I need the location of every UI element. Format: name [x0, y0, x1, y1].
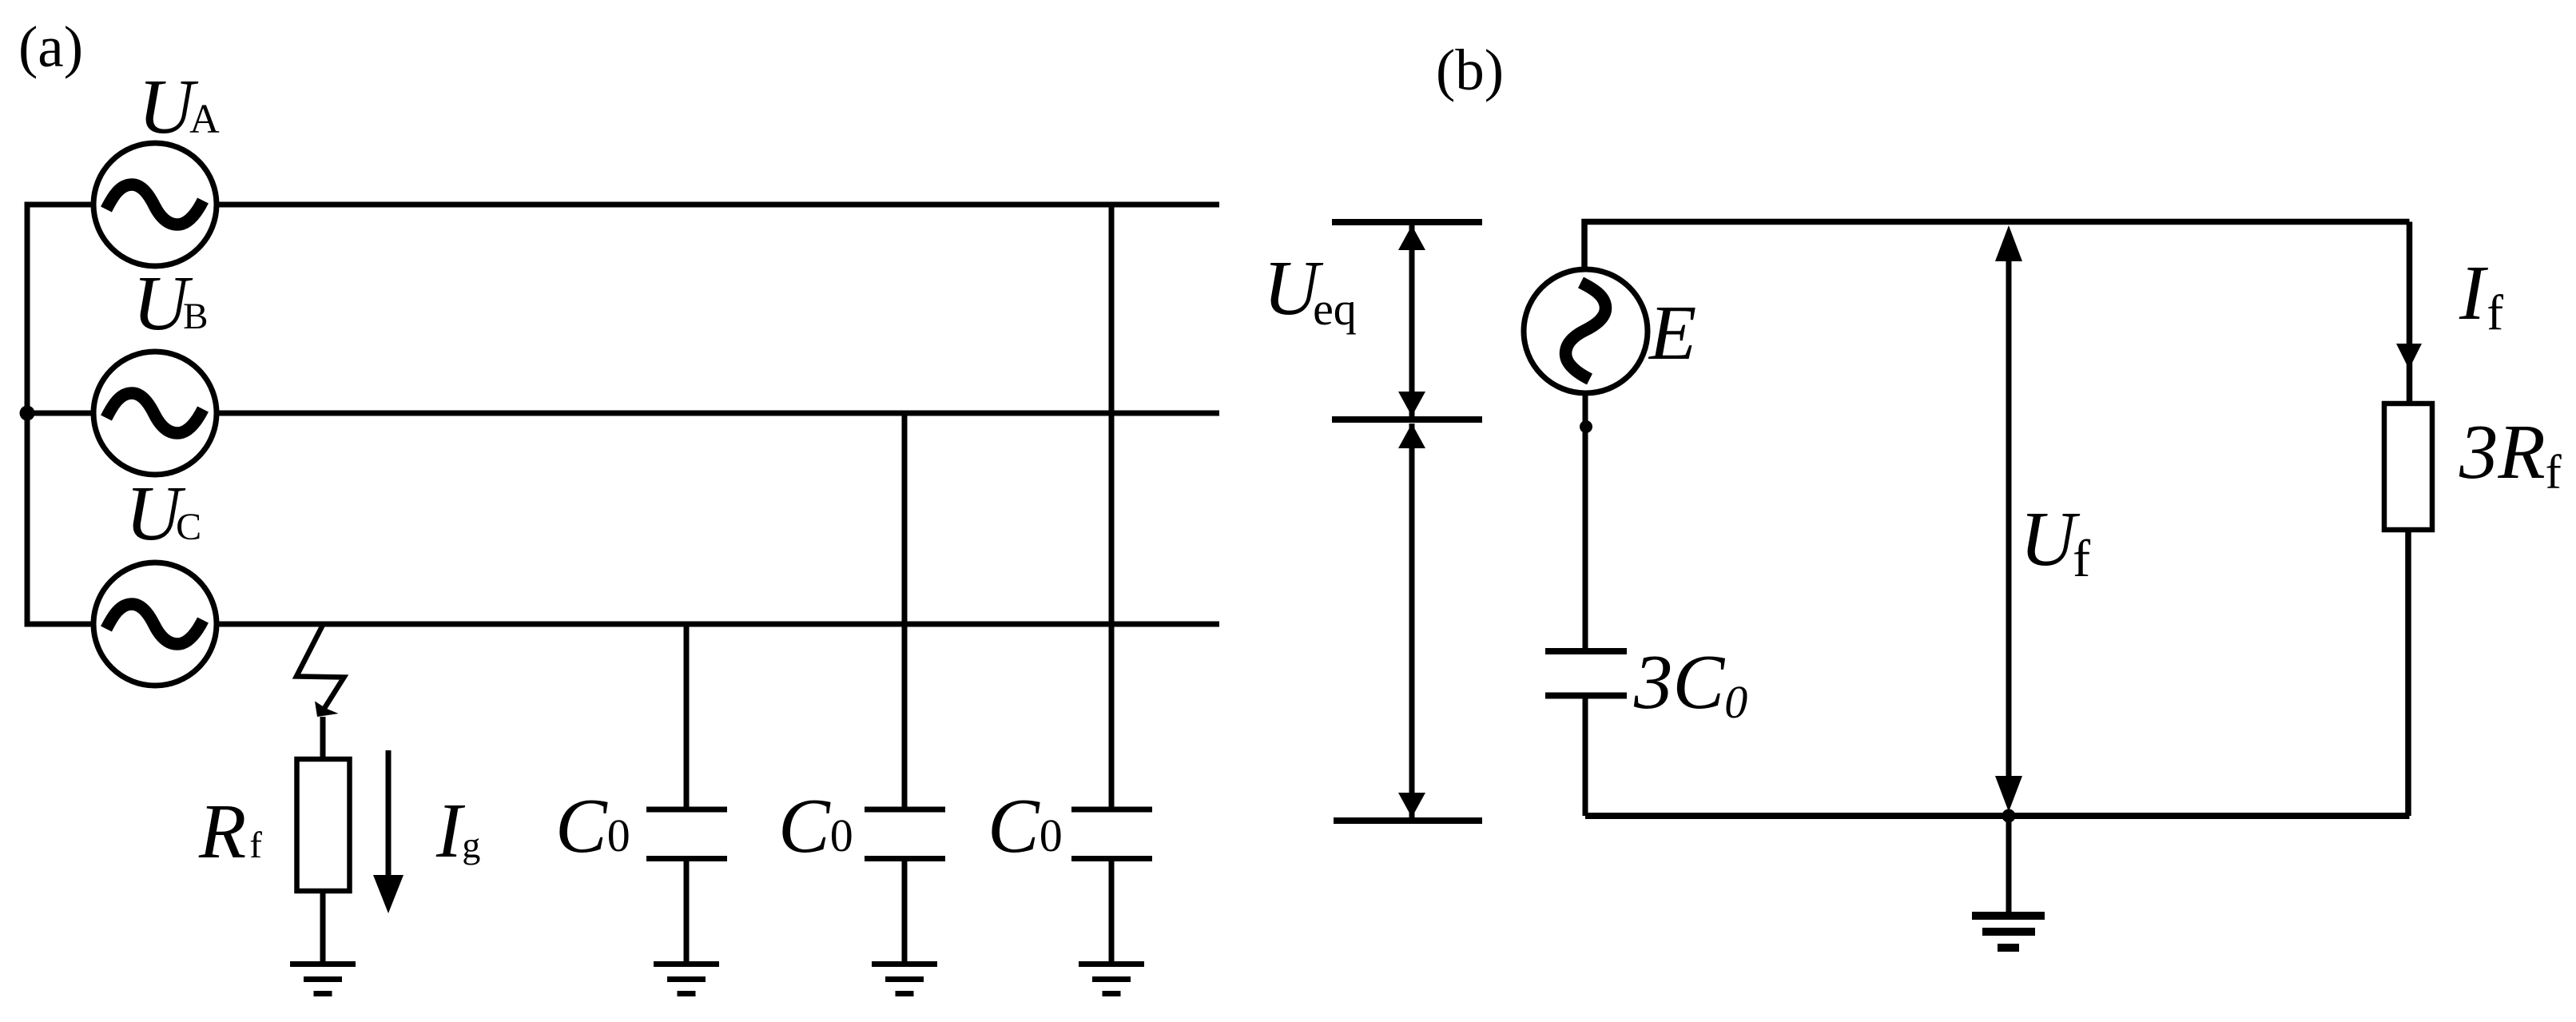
capacitor C0 #3: [1071, 205, 1152, 964]
ground below C0 #1: [654, 961, 719, 996]
dimension lower double arrow: [1398, 424, 1425, 817]
capacitor C0 #2: [865, 413, 945, 964]
capacitor 3C0 plates: [1545, 651, 1627, 696]
node dot at bottom wire / ground: [2002, 809, 2016, 823]
dimension Ueq top bar: [1332, 219, 1482, 225]
node dot below E: [1580, 420, 1592, 433]
resistor Rf: [297, 759, 350, 891]
svg-text:E: E: [1648, 290, 1696, 376]
capacitor C0 #1: [646, 624, 727, 964]
wire: fault to Rf: [320, 717, 326, 759]
current arrow Ig: [373, 750, 403, 913]
wire: bottom wire to ground: [2006, 816, 2012, 912]
ground below C0 #3: [1079, 961, 1144, 996]
wire: left neutral bus vertical: [25, 202, 30, 627]
wire: Rf to ground: [320, 891, 326, 964]
source E: [1524, 269, 1648, 393]
resistor 3Rf: [2384, 404, 2432, 530]
fault lightning zigzag: [296, 626, 344, 710]
wire: phase B horizontal: [25, 411, 1220, 416]
wire: 3Rf to bottom wire: [2405, 530, 2411, 816]
source UB: [93, 352, 217, 475]
dimension Ueq bottom bar: [1332, 416, 1482, 423]
ground below (b): [1972, 912, 2045, 952]
ground below C0 #2: [872, 961, 937, 996]
wire: 3C0 to bottom wire: [1583, 696, 1588, 817]
svg-text:(b): (b): [1436, 38, 1504, 102]
source UC: [93, 563, 217, 686]
fault lightning arrowhead: [315, 702, 339, 718]
ground below Rf: [290, 961, 356, 996]
svg-text:(a): (a): [18, 14, 83, 79]
dimension Ueq double arrow: [1398, 225, 1425, 416]
wire: E top to corner and top wire of (b): [1584, 222, 2410, 272]
wire: right branch from top wire to resistor: [2407, 222, 2413, 404]
current arrowhead If: [2396, 344, 2422, 369]
node: neutral junction dot: [20, 406, 35, 421]
wire: E bottom to capacitor 3C0: [1583, 391, 1588, 648]
source UA: [93, 143, 217, 266]
dimension bottom bar: [1334, 817, 1482, 824]
wire: phase A horizontal: [25, 202, 1220, 208]
voltage arrow Uf: [1995, 225, 2022, 812]
wire: phase C horizontal: [25, 622, 1220, 627]
wire: bottom of (b): [1585, 813, 2410, 819]
